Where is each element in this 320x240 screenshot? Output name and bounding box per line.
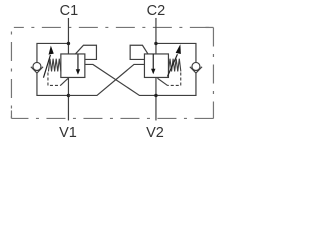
valve 2 spring adjustment arrow <box>167 44 180 76</box>
svg-text:V2: V2 <box>146 125 164 141</box>
wire: V1 branch from check valve CV1 <box>37 73 68 96</box>
wire: valve 1 pilot line to V2 <box>85 64 156 95</box>
svg-text:V1: V1 <box>59 125 77 141</box>
node: C2 junction <box>154 42 157 45</box>
label C2 <box>147 3 166 19</box>
wire: port V1 line <box>67 77 69 120</box>
check valve CV1 (ball and seat) <box>31 62 43 73</box>
label V2 <box>146 125 164 141</box>
label C1 <box>60 3 79 19</box>
check valve CV2 (ball and seat) <box>190 62 202 73</box>
node: V1 junction <box>67 94 70 97</box>
wire: port C2 line <box>155 18 157 54</box>
valve 2 internal pilot passage (flag loop) <box>130 45 148 59</box>
valve 1 flow arrow (down) <box>76 54 80 74</box>
node: V2 junction <box>154 94 157 97</box>
wire: port C1 line <box>67 18 69 54</box>
svg-text:C2: C2 <box>147 3 166 19</box>
wire: valve 2 pilot line to V1 <box>68 64 144 95</box>
wire: V2 branch from check valve CV2 <box>156 73 196 96</box>
valve body enclosure (dash-dot boundary) <box>11 27 213 118</box>
valve 1 spring chamber drain (dashed) <box>48 72 68 85</box>
wire: C1 branch to check valve CV1 <box>37 43 68 62</box>
node: C1 junction <box>67 42 70 45</box>
wire: port V2 line <box>155 77 157 120</box>
counterbalance valve element 1: main box <box>61 54 85 77</box>
counterbalance valve element 2: main box <box>144 54 168 77</box>
valve 2 flow arrow (down) <box>151 54 155 74</box>
valve 2 spring chamber drain (dashed) <box>157 72 180 85</box>
svg-text:C1: C1 <box>60 3 79 19</box>
label V1 <box>59 125 77 141</box>
valve 1 internal pilot passage (flag loop) <box>75 45 96 59</box>
valve 1 spring adjustment arrow <box>43 46 53 78</box>
valve 1 spring (adjustable) <box>48 59 60 72</box>
valve 2 spring (adjustable) <box>168 59 180 72</box>
wire: C2 branch to check valve CV2 <box>156 43 196 62</box>
